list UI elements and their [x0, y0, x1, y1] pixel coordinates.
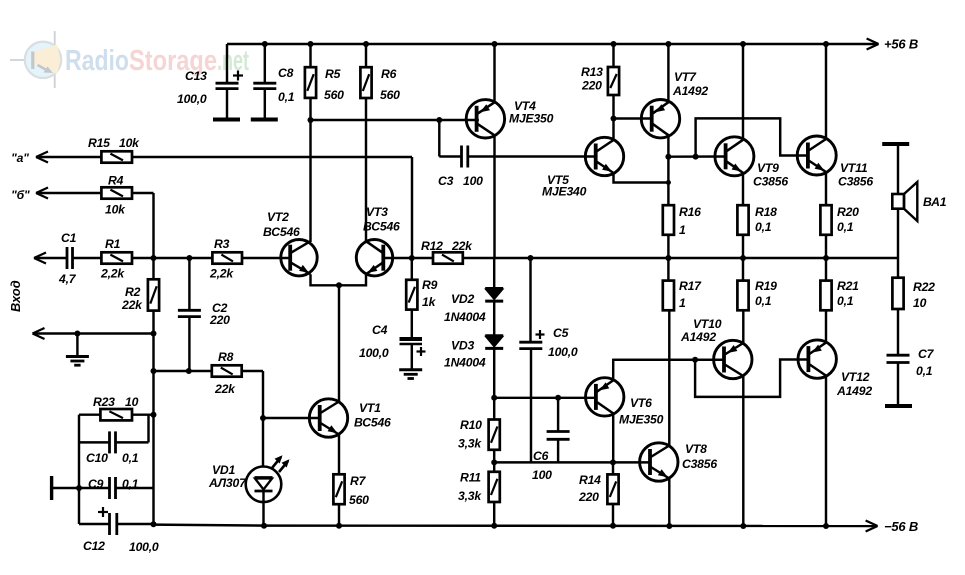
label R1: [100, 237, 125, 281]
label C13: [177, 69, 207, 106]
label R11: [458, 471, 482, 504]
label C2: [209, 301, 230, 327]
transistor VT10: [714, 340, 752, 378]
wire VT11 emitter to R20: [825, 172, 827, 205]
svg-text:VT12: VT12: [841, 370, 870, 384]
svg-text:R9: R9: [422, 278, 438, 292]
svg-text:С10: С10: [86, 451, 108, 465]
svg-text:100: 100: [463, 174, 483, 188]
svg-text:R4: R4: [108, 174, 124, 188]
wire VT7 collector to VT9 base: [668, 154, 725, 160]
svg-text:С3: С3: [438, 174, 454, 188]
label VD3: [444, 339, 486, 370]
svg-text:0,1: 0,1: [122, 477, 139, 491]
wire VT10 collector to rail: [740, 376, 746, 529]
svg-text:ВС546: ВС546: [263, 225, 300, 239]
wire VT1 collector: [338, 285, 340, 401]
resistor R15: [101, 151, 132, 162]
wire VT8 emitter: [666, 478, 672, 529]
decorative watermark logo: [10, 31, 249, 88]
svg-text:R11: R11: [460, 471, 481, 485]
wire node to VT4 base: [311, 117, 479, 123]
svg-text:R19: R19: [755, 279, 777, 293]
svg-text:0,1: 0,1: [755, 294, 772, 308]
svg-text:"б": "б": [11, 188, 30, 202]
svg-text:R1: R1: [105, 237, 121, 251]
svg-text:0,1: 0,1: [837, 294, 854, 308]
label C7: [916, 347, 935, 378]
label C5: [548, 326, 578, 359]
wire VT12 collector to rail: [823, 376, 829, 529]
label C12: [83, 539, 159, 554]
transistor VT8: [640, 443, 678, 481]
svg-text:R13: R13: [581, 65, 603, 79]
wire R13 node to VT7 base: [614, 117, 652, 119]
svg-text:R20: R20: [837, 205, 859, 219]
transistor VT7: [641, 100, 679, 138]
svg-text:1: 1: [679, 223, 686, 237]
capacitor C3: [462, 146, 596, 168]
svg-text:−56 В: −56 В: [884, 519, 918, 534]
label b: [11, 188, 30, 202]
svg-text:1N4004: 1N4004: [444, 310, 486, 324]
wire C1 to R1: [73, 257, 102, 259]
speaker BA1: [892, 146, 917, 258]
label C6: [532, 449, 552, 482]
wire VD3 to VT6 base: [491, 395, 596, 401]
label a: [11, 151, 29, 165]
wire ground return: [33, 328, 154, 339]
capacitor C8: [253, 41, 276, 118]
resistor R7: [333, 474, 344, 529]
capacitor C12: [79, 507, 154, 535]
wire VT6 emitter to driver line: [613, 357, 723, 381]
svg-text:VT8: VT8: [685, 442, 707, 456]
svg-text:10: 10: [913, 296, 927, 310]
label R14: [578, 473, 601, 504]
label C10: [86, 451, 139, 465]
capacitor C10: [79, 415, 149, 454]
svg-text:560: 560: [380, 88, 400, 102]
label R8: [214, 350, 236, 396]
label R5: [324, 67, 344, 102]
svg-text:R14: R14: [579, 473, 601, 487]
resistor R22: [892, 258, 903, 355]
svg-text:0,1: 0,1: [755, 220, 772, 234]
wire emitters join: [311, 274, 367, 288]
label -56 V: [884, 519, 918, 534]
chassis bar C13: [213, 118, 240, 122]
svg-text:ВА1: ВА1: [923, 195, 947, 209]
label R18: [755, 205, 777, 234]
svg-text:22k: 22k: [451, 239, 473, 253]
svg-text:С7: С7: [918, 347, 935, 361]
svg-text:22k: 22k: [121, 298, 143, 312]
svg-text:С4: С4: [372, 323, 388, 337]
wire output line: [463, 255, 898, 261]
wire R23 left down: [79, 415, 100, 524]
label C9: [88, 477, 139, 491]
svg-text:VT11: VT11: [840, 161, 868, 175]
wire VT9 collector to rail: [740, 41, 746, 140]
ground C4: [399, 370, 422, 379]
wire input a line: [36, 152, 101, 163]
wire VT7 collector to R16: [665, 135, 671, 205]
wire VT5 collector: [612, 119, 614, 141]
svg-text:С5: С5: [553, 326, 569, 340]
wire VT1 base: [263, 417, 320, 419]
svg-text:100,0: 100,0: [177, 92, 207, 106]
label R7: [349, 474, 369, 507]
svg-text:MJE350: MJE350: [619, 413, 664, 427]
resistor R17: [663, 258, 674, 310]
wire R15 to feedback node: [132, 157, 412, 258]
svg-text:1N4004: 1N4004: [444, 356, 486, 370]
svg-text:R15: R15: [88, 136, 110, 150]
resistor R6: [360, 41, 371, 98]
wire VT4 collector to output node: [493, 135, 495, 258]
label C3: [438, 174, 483, 188]
wire VT7 emitter to rail: [665, 41, 671, 102]
svg-text:0,1: 0,1: [916, 364, 933, 378]
label R12: [421, 239, 473, 253]
resistor R2: [148, 258, 159, 334]
svg-text:100,0: 100,0: [129, 540, 159, 554]
svg-text:220: 220: [581, 79, 602, 93]
svg-text:100,0: 100,0: [359, 346, 389, 360]
svg-text:.net: .net: [217, 45, 249, 77]
svg-text:С13: С13: [185, 69, 207, 83]
svg-text:АЛ307: АЛ307: [208, 476, 247, 490]
svg-text:VT2: VT2: [267, 210, 289, 224]
resistor R12: [409, 252, 463, 263]
svg-text:0,1: 0,1: [837, 220, 854, 234]
wire VT2 collector to R5: [309, 120, 311, 242]
label R17: [679, 279, 702, 310]
svg-text:R17: R17: [679, 279, 702, 293]
capacitor C6: [547, 398, 570, 463]
resistor R5: [305, 41, 316, 123]
label C8: [278, 66, 295, 104]
svg-text:3,3k: 3,3k: [458, 437, 482, 451]
label C4: [359, 323, 389, 360]
resistor R9: [406, 258, 417, 338]
label BA1: [923, 195, 947, 209]
svg-text:"a": "a": [11, 151, 29, 165]
capacitor C5: [519, 258, 544, 462]
svg-text:С1: С1: [61, 231, 77, 245]
capacitor C1: [67, 247, 73, 269]
wire VT11 collector to rail: [823, 41, 829, 139]
svg-text:560: 560: [324, 88, 344, 102]
capacitor C13: [216, 44, 244, 118]
svg-text:4,7: 4,7: [58, 272, 77, 286]
svg-text:R2: R2: [125, 285, 141, 299]
wire VT8 collector: [668, 310, 670, 446]
resistor R13: [608, 41, 619, 122]
svg-text:100: 100: [532, 468, 552, 482]
chassis bar C8: [251, 118, 278, 122]
svg-text:VT7: VT7: [674, 70, 697, 84]
svg-text:R3: R3: [214, 237, 230, 251]
svg-text:22k: 22k: [214, 382, 236, 396]
wire -56V bottom rail: [151, 521, 878, 532]
svg-text:VT3: VT3: [366, 205, 388, 219]
svg-text:С3856: С3856: [682, 457, 717, 471]
svg-text:10: 10: [125, 395, 139, 409]
resistor R19: [737, 258, 748, 310]
capacitor C4: [400, 339, 426, 369]
svg-text:VT10: VT10: [693, 317, 722, 331]
svg-text:0,1: 0,1: [278, 90, 295, 104]
label R15: [88, 136, 140, 150]
label R23: [93, 395, 139, 409]
chassis bar speaker top: [882, 142, 909, 146]
wire VT12 emitter to R21: [825, 310, 827, 342]
label R2: [121, 285, 143, 312]
resistor R1: [101, 252, 132, 263]
transistor VT3: [356, 240, 392, 276]
label R4: [105, 174, 126, 217]
wire VT1 emitter to R7: [338, 435, 340, 475]
svg-text:560: 560: [349, 493, 369, 507]
svg-text:С6: С6: [533, 449, 549, 463]
svg-text:R21: R21: [837, 279, 859, 293]
svg-text:С9: С9: [88, 477, 104, 491]
svg-text:R12: R12: [421, 239, 443, 253]
LED VD1: [246, 418, 290, 529]
label R6: [380, 67, 400, 102]
svg-text:0,1: 0,1: [122, 451, 139, 465]
transistor VT12: [798, 340, 836, 378]
label VT3: [363, 205, 400, 234]
label VT10: [680, 317, 722, 344]
resistor R4: [101, 187, 132, 198]
svg-text:С8: С8: [278, 66, 294, 80]
svg-text:А1492: А1492: [836, 384, 872, 398]
label R21: [837, 279, 859, 308]
svg-text:R8: R8: [218, 350, 234, 364]
resistor R8: [212, 365, 242, 376]
wire R8 to VT1 base node: [242, 371, 266, 421]
diode VD3: [485, 301, 503, 398]
ground input: [66, 334, 89, 366]
capacitor C9: [52, 477, 154, 499]
resistor R3: [212, 252, 242, 263]
label VT9: [753, 161, 788, 189]
svg-text:+56 В: +56 В: [884, 37, 918, 52]
label R10: [458, 418, 482, 451]
label VT4: [509, 99, 554, 126]
svg-text:1k: 1k: [422, 295, 437, 309]
resistor R23: [132, 413, 154, 415]
wire VT9 emitter to R18: [742, 173, 744, 205]
wire VT3 base to R12 node: [383, 257, 412, 259]
label +56 V: [884, 37, 918, 52]
svg-text:VT1: VT1: [359, 401, 381, 415]
resistor R11: [489, 462, 500, 528]
svg-text:R7: R7: [350, 474, 367, 488]
wire VT5 emitter: [614, 173, 671, 185]
svg-text:100,0: 100,0: [548, 345, 578, 359]
transistor VT4: [466, 100, 504, 138]
svg-text:220: 220: [578, 490, 599, 504]
label R9: [422, 278, 438, 309]
label VT5: [542, 173, 587, 199]
label R13: [581, 65, 603, 93]
wire R6 to VT3 collector: [365, 98, 367, 242]
transistor VT6: [586, 378, 624, 416]
wire to VT12 base: [695, 360, 808, 397]
label VT6: [619, 396, 664, 427]
label VT7: [672, 70, 708, 98]
transistor VT2: [281, 240, 317, 276]
capacitor C7: [887, 355, 910, 404]
wire R4 to main line: [132, 193, 154, 258]
wire VT10 emitter to R19: [742, 310, 744, 343]
wire input line: [34, 253, 67, 264]
svg-text:VD2: VD2: [451, 292, 475, 306]
label R16: [679, 205, 701, 237]
svg-text:2,2k: 2,2k: [209, 267, 234, 281]
chassis bar C7: [885, 404, 912, 408]
svg-text:220: 220: [209, 313, 230, 327]
transistor VT9: [715, 137, 754, 176]
svg-text:R5: R5: [325, 67, 341, 81]
label VT12: [836, 370, 872, 398]
label VT2: [263, 210, 300, 239]
svg-text:R23: R23: [93, 395, 115, 409]
svg-text:10k: 10k: [119, 136, 140, 150]
wire feedback vertical: [151, 331, 157, 525]
svg-text:VD3: VD3: [451, 339, 475, 353]
resistor R14: [607, 462, 618, 528]
svg-text:С3856: С3856: [838, 175, 873, 189]
label R20: [837, 205, 859, 234]
transistor VT11: [797, 136, 836, 175]
svg-text:R10: R10: [460, 418, 482, 432]
wire VT6 collector down: [612, 413, 614, 462]
resistor R21: [820, 258, 831, 310]
svg-text:10k: 10k: [105, 203, 126, 217]
svg-text:ВС546: ВС546: [363, 220, 400, 234]
wire driver line to VT10 base: [613, 359, 723, 361]
resistor R16: [663, 205, 674, 258]
wire lower bias line: [494, 459, 650, 465]
wire VT4 emitter to rail: [492, 41, 498, 102]
wire VAS node down: [439, 120, 461, 157]
resistor R10: [489, 398, 500, 466]
capacitor C2: [178, 258, 201, 371]
svg-text:R6: R6: [381, 67, 397, 81]
label R19: [755, 279, 777, 308]
svg-text:R18: R18: [755, 205, 777, 219]
wire R8 line: [154, 368, 212, 374]
wire to VT11 base: [696, 118, 808, 156]
svg-text:А1492: А1492: [680, 330, 716, 344]
label VT8: [682, 442, 717, 471]
svg-text:А1492: А1492: [672, 84, 708, 98]
resistor R20: [820, 205, 831, 258]
svg-text:ВС546: ВС546: [354, 416, 391, 430]
label VD2: [444, 292, 486, 324]
svg-text:R22: R22: [913, 280, 935, 294]
wire +56V top rail: [227, 39, 879, 50]
svg-text:2,2k: 2,2k: [100, 267, 125, 281]
svg-text:MJE340: MJE340: [542, 185, 587, 199]
svg-text:VT9: VT9: [757, 161, 779, 175]
label VD1: [208, 463, 247, 490]
label C1: [58, 231, 77, 286]
svg-text:Radio: Radio: [65, 45, 129, 77]
wire R1 to VT2 base: [132, 255, 291, 261]
svg-text:1: 1: [679, 296, 686, 310]
label VT1: [354, 401, 391, 430]
label Vhod: [8, 280, 23, 312]
svg-text:С12: С12: [83, 539, 105, 553]
svg-text:MJE350: MJE350: [509, 112, 554, 126]
label VT11: [838, 161, 873, 189]
resistor R18: [737, 205, 748, 258]
label R22: [913, 280, 935, 310]
terminal C9: [50, 476, 53, 500]
transistor VT5: [585, 137, 623, 175]
svg-text:VT6: VT6: [630, 396, 652, 410]
svg-text:VD1: VD1: [212, 463, 236, 477]
label R3: [209, 237, 234, 281]
svg-text:R16: R16: [679, 205, 701, 219]
svg-text:С3856: С3856: [753, 175, 788, 189]
wire input b line: [36, 188, 101, 199]
svg-text:Вход: Вход: [8, 280, 23, 312]
svg-text:3,3k: 3,3k: [458, 489, 482, 503]
diode VD2: [485, 258, 503, 301]
transistor VT1: [309, 399, 347, 437]
